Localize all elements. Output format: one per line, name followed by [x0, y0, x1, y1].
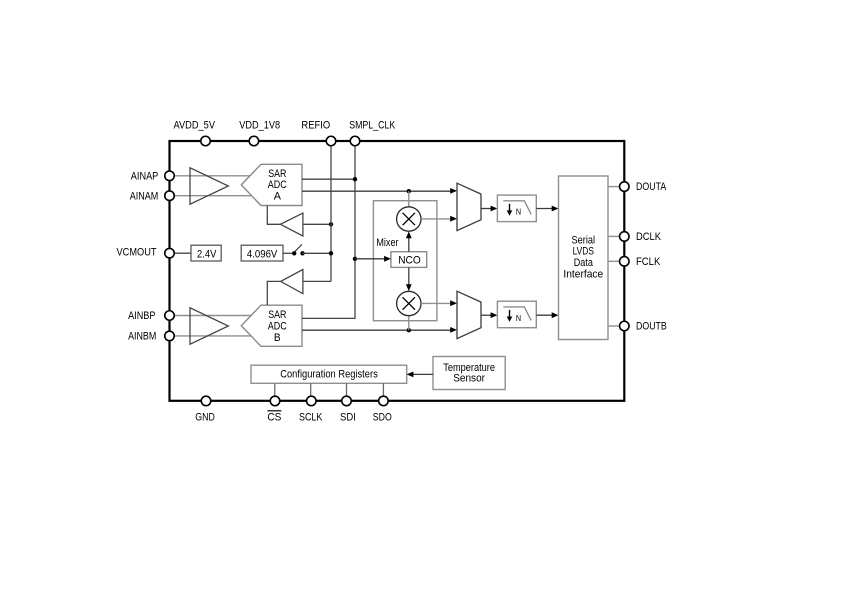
wire branch down to multiplier 1: [408, 191, 410, 207]
decimation filter B: [497, 301, 536, 328]
wire multiplier 2 out to mux B: [421, 302, 450, 304]
pin DOUTB: [620, 321, 630, 331]
arrow into decimator A: [491, 206, 498, 212]
svg-text:DOUTB: DOUTB: [636, 321, 667, 333]
wire REFIO vertical: [330, 146, 332, 282]
pin DOUTA: [620, 182, 630, 192]
buffer amp B: [281, 270, 303, 294]
SAR ADC B: [241, 305, 302, 346]
wire config to SCLK pin: [310, 383, 312, 396]
junction ADC A data / mixer branch: [407, 189, 411, 193]
svg-text:LVDS: LVDS: [573, 246, 595, 258]
wire mux B out: [481, 314, 491, 316]
wire AINAM to amp A: [174, 195, 251, 197]
svg-text:Sensor: Sensor: [453, 372, 485, 384]
wire serial to FCLK: [608, 260, 620, 262]
svg-text:A: A: [274, 190, 282, 202]
pin AINBM: [165, 331, 175, 341]
svg-text:NCO: NCO: [398, 255, 421, 267]
wire mux A out: [481, 208, 491, 210]
svg-text:AVDD_5V: AVDD_5V: [174, 120, 216, 132]
junction SMPL_CLK / NCO: [353, 257, 357, 261]
SAR ADC A: [241, 164, 302, 205]
wire buffer B to REFIO net: [303, 280, 331, 282]
pin VCMOUT: [165, 248, 175, 258]
arrow into serial interface B: [552, 312, 559, 318]
wire decimator B to serial interface: [536, 314, 552, 316]
arrow NCO to multiplier 1: [406, 231, 412, 251]
wire SMPL_CLK to NCO: [355, 258, 385, 260]
wire serial to DOUTA: [608, 186, 620, 188]
arrow multiplier 1 out into mux A: [450, 216, 457, 222]
svg-text:AINAM: AINAM: [130, 190, 159, 202]
2.4V reference box: [191, 245, 221, 261]
pin FCLK: [620, 257, 630, 267]
wire buffer A to REFIO net: [303, 223, 331, 225]
wire 4.096V to switch: [283, 252, 292, 254]
wire SMPL_CLK to ADC A: [302, 178, 355, 180]
serial LVDS data interface block: [559, 176, 609, 340]
wire multiplier 1 out to mux A: [421, 218, 450, 220]
pin AINBP: [165, 311, 175, 321]
wire buffer B to ADC B: [267, 281, 280, 305]
svg-text:N: N: [516, 207, 521, 217]
svg-text:N: N: [516, 313, 521, 323]
svg-text:REFIO: REFIO: [301, 120, 330, 132]
svg-text:DCLK: DCLK: [636, 231, 661, 243]
mixer block: [373, 201, 437, 321]
pin AVDD_5V: [201, 136, 211, 146]
label CS with overline: [267, 411, 281, 424]
svg-text:AINAP: AINAP: [131, 170, 159, 182]
svg-text:Configuration Registers: Configuration Registers: [280, 368, 378, 380]
svg-text:GND: GND: [195, 411, 215, 423]
svg-text:SMPL_CLK: SMPL_CLK: [349, 120, 395, 132]
svg-text:4.096V: 4.096V: [247, 248, 278, 260]
svg-text:AINBM: AINBM: [128, 330, 156, 342]
wire ADC A to buffer A: [267, 206, 280, 225]
wire VCMOUT to 2.4V: [174, 252, 191, 254]
junction switch / REFIO: [329, 251, 333, 255]
svg-text:DOUTA: DOUTA: [636, 181, 667, 193]
wire temperature sensor to config: [413, 373, 433, 375]
svg-text:SCLK: SCLK: [299, 411, 323, 423]
arrow into decimator B: [491, 312, 498, 318]
junction ADC B data / mixer branch: [407, 328, 411, 332]
mux B: [457, 291, 481, 338]
svg-text:SAR: SAR: [268, 309, 286, 321]
pin CS: [270, 396, 280, 406]
wire serial to DOUTB: [608, 325, 620, 327]
wire ADC B data out: [302, 329, 452, 331]
decimation filter A: [497, 195, 536, 222]
svg-text:ADC: ADC: [268, 321, 287, 333]
configuration registers block: [251, 365, 407, 383]
junction buffer A / REFIO: [329, 222, 333, 226]
arrow multiplier 2 out into mux B: [450, 300, 457, 306]
svg-text:SDO: SDO: [373, 411, 392, 423]
NCO box: [391, 252, 427, 268]
wire AINAP to amp A: [174, 175, 250, 177]
pin AINAP: [165, 171, 175, 181]
svg-text:CS: CS: [267, 411, 281, 423]
wire switch to REFIO net: [303, 252, 332, 254]
svg-text:VCMOUT: VCMOUT: [117, 246, 157, 258]
mux A: [457, 183, 481, 230]
wire config to SDO pin: [382, 383, 384, 396]
wire branch up to multiplier 2: [408, 316, 410, 331]
svg-text:2.4V: 2.4V: [197, 248, 217, 260]
wire decimator A to serial interface: [536, 208, 552, 210]
pin SDO: [379, 396, 389, 406]
wire AINBM to amp B: [174, 335, 251, 337]
junction SMPL_CLK / ADC A clock: [353, 177, 357, 181]
chip boundary: [170, 141, 625, 401]
multiplier 1: [397, 207, 421, 231]
pin SDI: [342, 396, 352, 406]
pin GND: [201, 396, 211, 406]
wire serial to DCLK: [608, 235, 620, 237]
pin DCLK: [620, 232, 630, 242]
svg-text:AINBP: AINBP: [128, 310, 155, 322]
4.096V reference box: [241, 245, 283, 261]
wire SMPL_CLK vertical: [302, 146, 355, 319]
pin AINAM: [165, 191, 175, 201]
arrow into config registers: [407, 372, 414, 378]
pin VDD_1V8: [249, 136, 259, 146]
svg-text:SDI: SDI: [340, 411, 356, 423]
pin REFIO: [326, 136, 336, 146]
pin SCLK: [307, 396, 317, 406]
arrow ADC A data into mux A: [450, 188, 457, 194]
switch: [292, 244, 305, 255]
svg-text:FCLK: FCLK: [636, 256, 661, 268]
pin SMPL_CLK: [350, 136, 360, 146]
svg-text:VDD_1V8: VDD_1V8: [239, 120, 280, 132]
svg-text:SAR: SAR: [268, 168, 286, 180]
arrow into serial interface A: [552, 206, 559, 212]
arrow ADC B data into mux B: [450, 327, 457, 333]
buffer amp A: [280, 213, 303, 236]
svg-text:Interface: Interface: [563, 268, 603, 280]
wire config to SDI pin: [346, 383, 348, 396]
svg-text:Mixer: Mixer: [376, 237, 398, 249]
arrow into NCO: [384, 256, 391, 262]
svg-text:B: B: [274, 332, 281, 344]
svg-text:Serial: Serial: [572, 234, 596, 246]
svg-text:Data: Data: [574, 257, 594, 269]
wire config to CS pin: [274, 383, 276, 396]
amplifier A: [190, 168, 228, 204]
wire AINBP to amp B: [174, 315, 251, 317]
arrow NCO to multiplier 2: [406, 267, 412, 291]
wire ADC A data out: [302, 190, 452, 192]
svg-text:ADC: ADC: [268, 179, 287, 191]
temperature sensor block: [433, 357, 505, 390]
amplifier B: [190, 308, 228, 344]
multiplier 2: [397, 291, 421, 315]
